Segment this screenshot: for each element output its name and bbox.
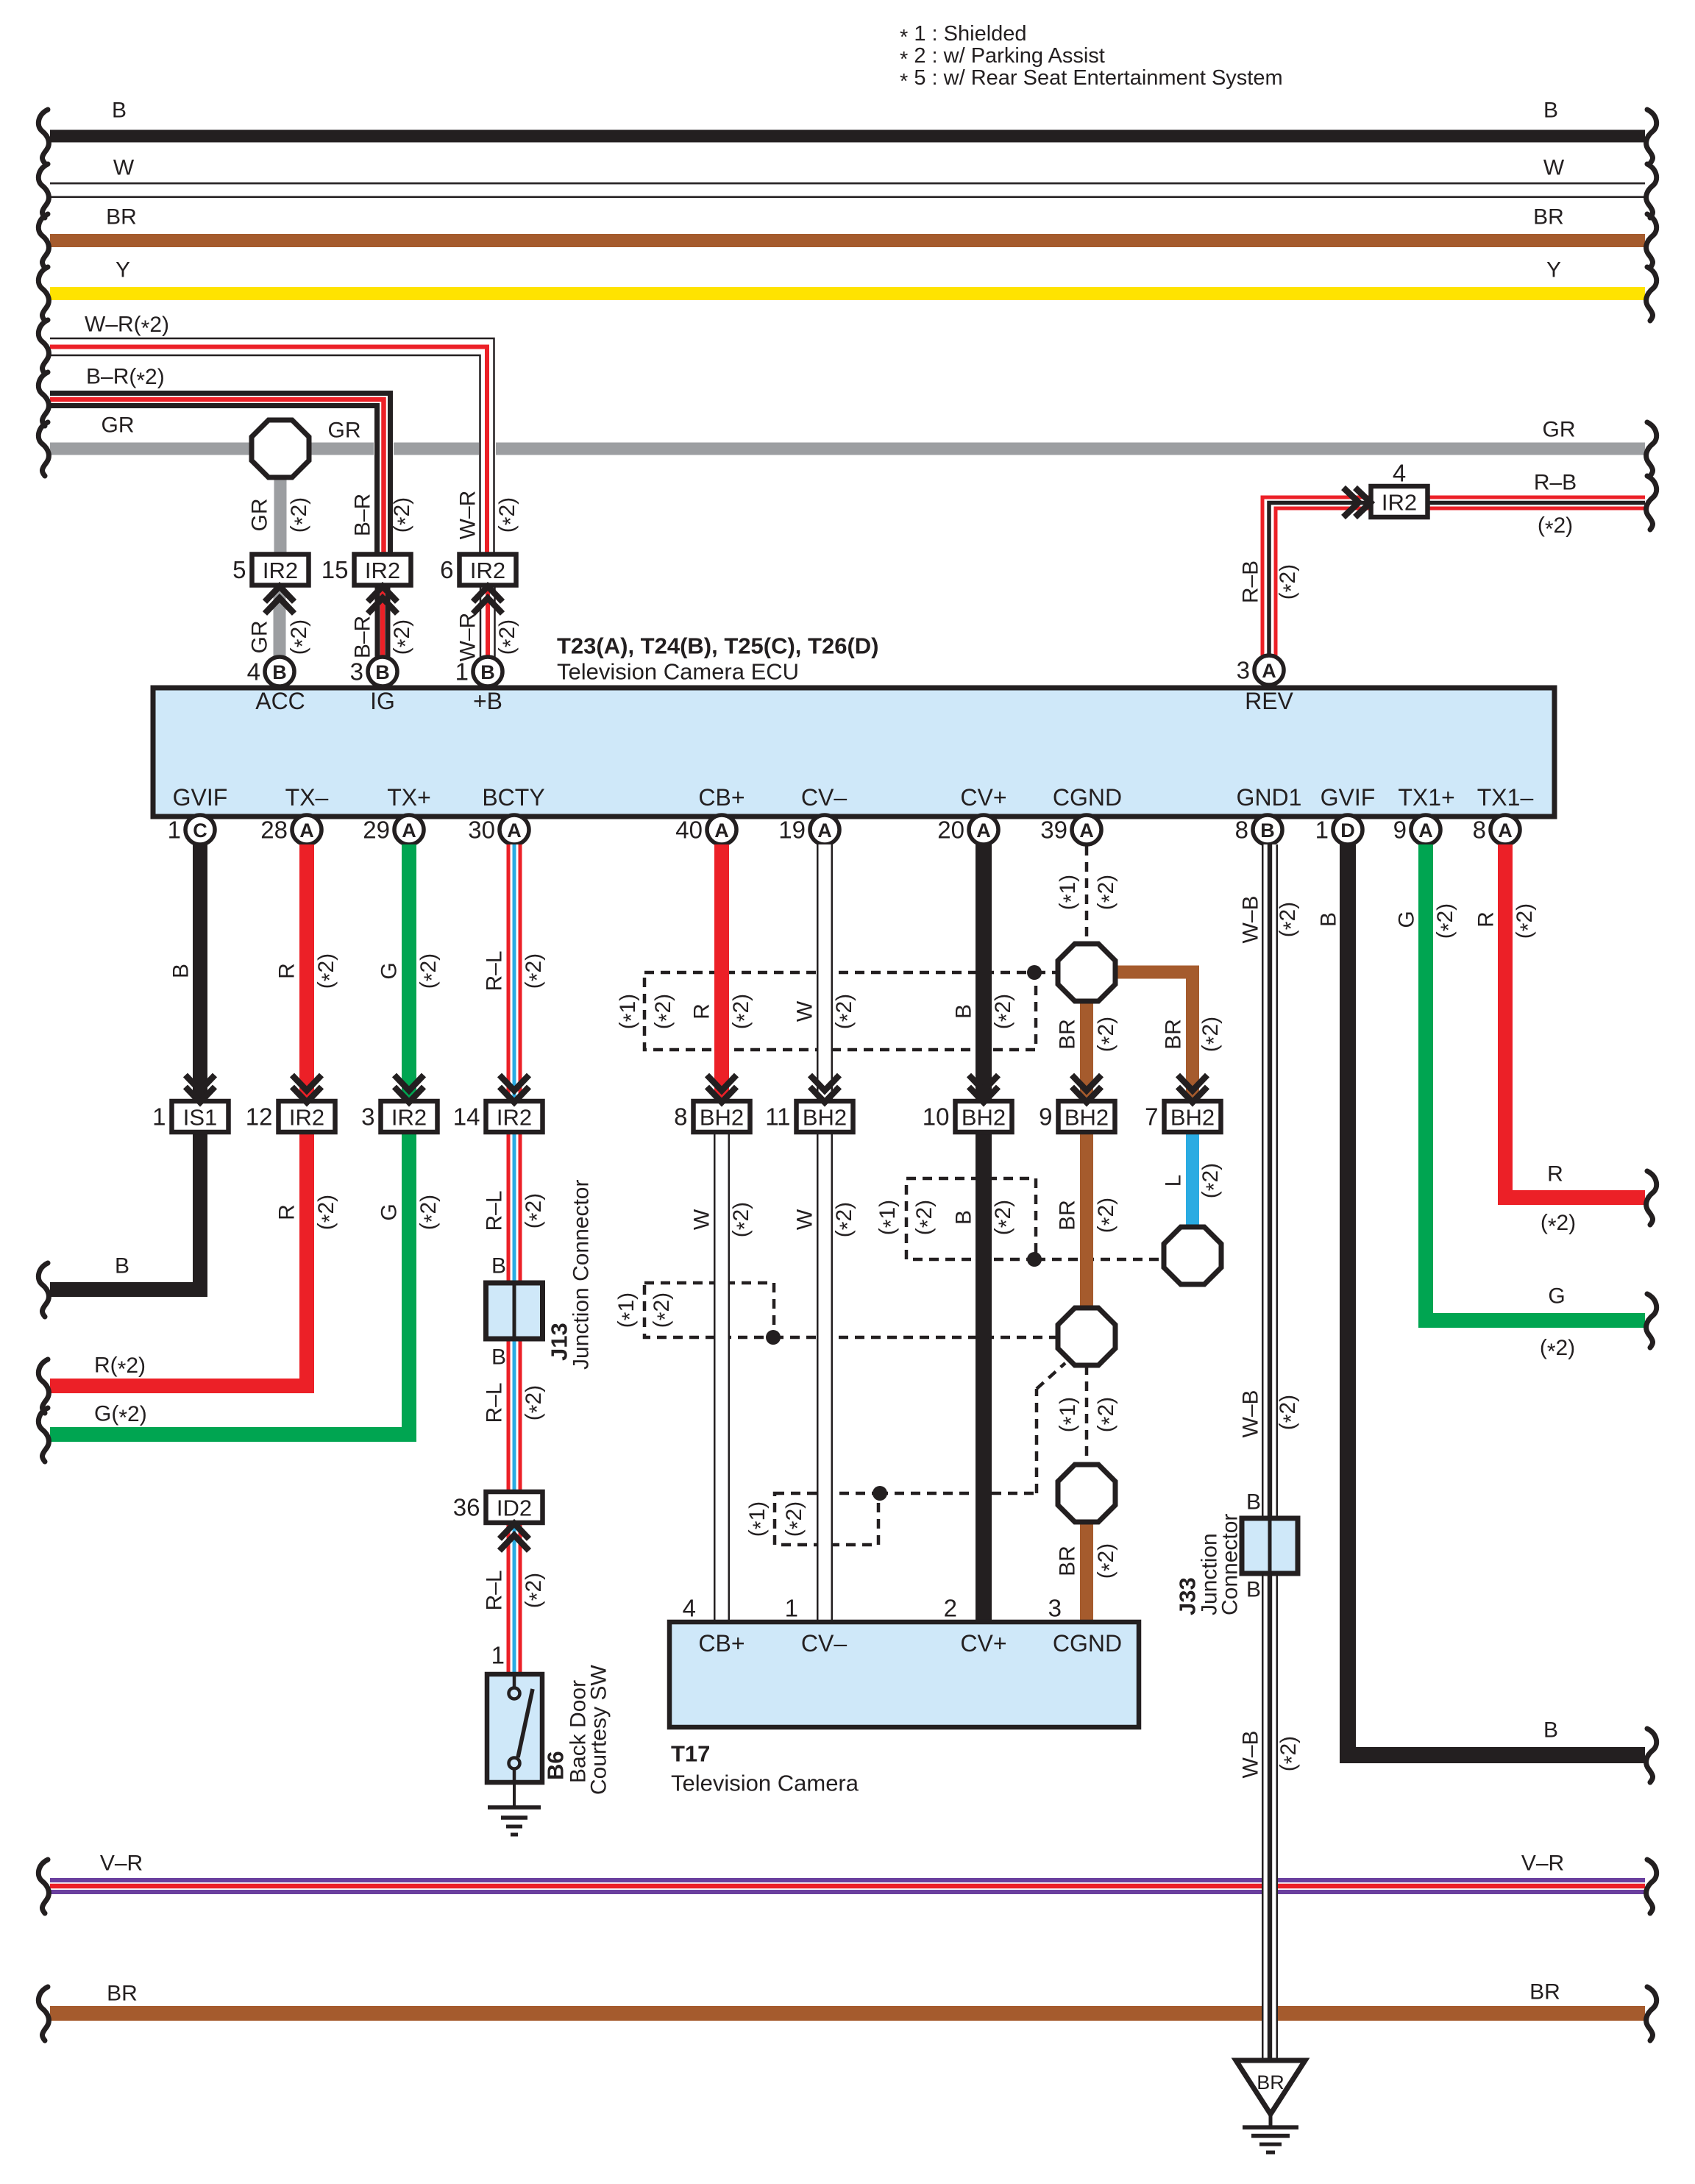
- svg-text:B–R: B–R: [351, 494, 375, 536]
- svg-text:R: R: [1474, 911, 1499, 928]
- svg-text:R–B: R–B: [1239, 561, 1263, 603]
- svg-text:G: G: [377, 1203, 402, 1220]
- svg-text:B: B: [115, 1254, 129, 1278]
- svg-text:R–L: R–L: [483, 1382, 507, 1423]
- svg-text:A: A: [714, 819, 729, 842]
- svg-text:W–R: W–R: [456, 613, 480, 662]
- wire W-R stub to pin 1B: [480, 586, 496, 657]
- svg-text:BH2: BH2: [962, 1105, 1006, 1131]
- ECU T17 Television Camera: [669, 1622, 1139, 1796]
- svg-text:B: B: [169, 964, 193, 978]
- svg-text:4: 4: [683, 1595, 696, 1622]
- svg-text:(*2): (*2): [1513, 903, 1541, 939]
- svg-text:D: D: [1340, 819, 1355, 842]
- svg-text:B: B: [112, 99, 127, 123]
- svg-text:BR: BR: [1056, 1200, 1080, 1231]
- svg-text:(*2): (*2): [1433, 903, 1461, 939]
- svg-text:W–R: W–R: [456, 491, 480, 540]
- label shield marks C-D: [1056, 1397, 1122, 1432]
- svg-text:BR: BR: [1056, 1545, 1080, 1576]
- wire R-B: [1239, 471, 1657, 656]
- svg-text:(*2): (*2): [416, 1195, 444, 1230]
- wire B-R stub to pin 3B: [377, 586, 388, 657]
- connector BH2 pin 9: [1039, 1075, 1115, 1133]
- svg-text:(*2): (*2): [1276, 564, 1304, 600]
- svg-text:2: 2: [944, 1595, 957, 1622]
- svg-text:B: B: [480, 661, 495, 683]
- label W-R above IR2-6: [456, 491, 523, 540]
- svg-text:GVIF: GVIF: [173, 784, 228, 811]
- wire BR bus: [38, 205, 1656, 268]
- svg-text:(*2): (*2): [991, 1200, 1019, 1235]
- wire W-R: [38, 313, 496, 555]
- svg-text:6: 6: [440, 556, 453, 583]
- svg-text:(*2): (*2): [729, 1202, 757, 1237]
- wire BR bottom bus: [38, 1980, 1656, 2041]
- svg-text:29: 29: [363, 817, 390, 844]
- connector IR2 pin 6: [440, 555, 516, 614]
- svg-text:W–B: W–B: [1239, 1730, 1263, 1778]
- svg-text:B: B: [491, 1254, 506, 1278]
- wire R from TX- pin 28A: [38, 844, 341, 1413]
- svg-text:IR2: IR2: [289, 1105, 324, 1131]
- svg-text:9: 9: [1393, 817, 1407, 844]
- svg-text:T17: T17: [671, 1741, 710, 1767]
- svg-text:BR: BR: [106, 205, 137, 230]
- svg-text:W: W: [113, 156, 135, 180]
- svg-text:(*2): (*2): [1538, 513, 1573, 541]
- junction dot W shield: [766, 1330, 781, 1345]
- svg-text:7: 7: [1145, 1103, 1158, 1131]
- label shield marks W box: [614, 1292, 678, 1328]
- svg-text:(*2): (*2): [522, 953, 550, 989]
- wire B bus: [38, 99, 1656, 164]
- svg-text:A: A: [507, 819, 522, 842]
- svg-text:(*2): (*2): [1094, 1397, 1122, 1432]
- svg-text:A: A: [1418, 819, 1433, 842]
- junction dot CV+ shield: [1027, 1252, 1042, 1267]
- pin 30 A BCTY: [468, 815, 529, 844]
- svg-text:(*2): (*2): [1094, 1198, 1122, 1233]
- svg-text:1: 1: [152, 1103, 166, 1131]
- connector IR2 pin 12: [246, 1075, 335, 1133]
- svg-text:IR2: IR2: [263, 558, 298, 583]
- svg-text:L: L: [1162, 1175, 1186, 1187]
- svg-text:39: 39: [1040, 817, 1067, 844]
- junction dot upper shield: [1027, 965, 1042, 980]
- svg-text:J13: J13: [547, 1323, 572, 1361]
- pin 8 B GND1: [1235, 815, 1282, 844]
- svg-text:20: 20: [937, 817, 964, 844]
- svg-text:IR2: IR2: [1382, 490, 1417, 516]
- svg-text:GR: GR: [248, 499, 272, 532]
- wire W below BH2-11: [785, 1132, 860, 1622]
- svg-text:REV: REV: [1245, 688, 1293, 714]
- svg-text:BCTY: BCTY: [482, 784, 544, 811]
- svg-text:CV–: CV–: [801, 784, 847, 811]
- wire W from CV- pin 19A: [793, 844, 860, 1102]
- svg-text:(*2): (*2): [522, 1573, 550, 1608]
- wire R from TX1- pin 8A: [1474, 844, 1657, 1239]
- wire G from TX1+ pin 9A: [1395, 844, 1657, 1364]
- svg-text:(*2): (*2): [390, 619, 418, 655]
- svg-text:12: 12: [246, 1103, 273, 1131]
- svg-text:Connector: Connector: [1218, 1514, 1243, 1615]
- connector IR2 pin 3: [361, 1075, 437, 1133]
- svg-text:B: B: [491, 1345, 506, 1370]
- svg-text:C: C: [193, 819, 207, 842]
- shield dashed box around CV+: [906, 1178, 1165, 1259]
- shield dashed box upper: [644, 972, 1058, 1050]
- label W-R below IR2-6: [456, 613, 523, 662]
- pin 20 A CV+: [937, 815, 998, 844]
- svg-text:(*1): (*1): [1056, 875, 1084, 910]
- svg-text:R–L: R–L: [483, 1190, 507, 1231]
- svg-text:TX–: TX–: [285, 784, 329, 811]
- svg-text:(*2): (*2): [416, 953, 444, 989]
- svg-text:36: 36: [453, 1494, 480, 1521]
- svg-text:B–R(*2): B–R(*2): [86, 365, 165, 393]
- connector IR2 pin 15: [321, 555, 411, 614]
- shield octagon A: [1058, 944, 1115, 1001]
- connector ID2 pin 36: [453, 1492, 543, 1551]
- svg-text:A: A: [402, 819, 416, 842]
- pin 9 A TX1+: [1393, 815, 1440, 844]
- svg-text:A: A: [817, 819, 832, 842]
- svg-text:R–L: R–L: [483, 950, 507, 991]
- svg-text:(*2): (*2): [1198, 1017, 1226, 1052]
- switch B6 Back Door Courtesy SW: [487, 1665, 611, 1795]
- svg-text:(*2): (*2): [1094, 875, 1122, 910]
- svg-text:GR: GR: [328, 419, 361, 443]
- svg-text:A: A: [976, 819, 991, 842]
- svg-text:B: B: [1317, 912, 1341, 927]
- wire BR octagon D to T17: [1048, 1521, 1122, 1622]
- ground BR triangle: [1236, 2060, 1305, 2152]
- svg-text:BR: BR: [1257, 2071, 1284, 2094]
- wire L below BH2-7 to octagon B: [1162, 1132, 1226, 1228]
- svg-text:G: G: [377, 962, 402, 979]
- pin 3 B IG: [350, 657, 397, 686]
- shield octagon B: [1164, 1227, 1221, 1284]
- wire B from GVIF pin 1C: [38, 844, 207, 1317]
- label shield marks upper box: [616, 994, 679, 1029]
- svg-text:(*2): (*2): [390, 497, 418, 533]
- svg-text:(*2): (*2): [782, 1501, 810, 1537]
- wire B from CV+ pin 20A: [952, 844, 1019, 1102]
- svg-text:(*2): (*2): [832, 1202, 860, 1237]
- junction connector J33: [1175, 1514, 1298, 1615]
- wire G from TX+ pin 29A: [38, 844, 444, 1462]
- svg-text:(*1): (*1): [1056, 1397, 1084, 1432]
- svg-text:(*2): (*2): [522, 1193, 550, 1228]
- svg-text:G: G: [1548, 1284, 1565, 1309]
- svg-text:CB+: CB+: [698, 1630, 745, 1657]
- svg-text:BR: BR: [1056, 1019, 1080, 1050]
- svg-text:R: R: [1547, 1162, 1563, 1187]
- svg-text:(*1): (*1): [745, 1501, 773, 1537]
- svg-text:(*2): (*2): [1094, 1543, 1122, 1579]
- svg-text:(*2): (*2): [314, 1195, 342, 1230]
- svg-text:TX1+: TX1+: [1398, 784, 1454, 811]
- connector IR2 pin 14: [453, 1075, 543, 1133]
- svg-text:B: B: [272, 661, 287, 683]
- svg-text:BH2: BH2: [1065, 1105, 1109, 1131]
- svg-text:(*2): (*2): [832, 994, 860, 1029]
- svg-text:1: 1: [1315, 817, 1329, 844]
- svg-text:11: 11: [765, 1103, 790, 1131]
- svg-text:Y: Y: [1546, 258, 1561, 282]
- pin 1 C GVIF: [168, 815, 215, 844]
- svg-text:B: B: [1260, 819, 1275, 842]
- svg-text:A: A: [1498, 819, 1513, 842]
- svg-text:Courtesy SW: Courtesy SW: [587, 1665, 611, 1795]
- shield octagon D: [1058, 1465, 1115, 1522]
- connector IR2 pin 5: [232, 555, 308, 614]
- svg-text:IG: IG: [370, 688, 395, 714]
- svg-text:* 5 : w/ Rear Seat Entertainme: * 5 : w/ Rear Seat Entertainment System: [900, 66, 1283, 93]
- svg-text:(*2): (*2): [314, 953, 342, 989]
- svg-text:30: 30: [468, 817, 495, 844]
- svg-text:W–B: W–B: [1239, 895, 1263, 943]
- svg-text:(*1): (*1): [875, 1200, 903, 1235]
- svg-text:R–L: R–L: [483, 1570, 507, 1610]
- connector BH2 pin 11: [765, 1075, 853, 1133]
- svg-text:V–R: V–R: [100, 1852, 143, 1876]
- svg-text:(*2): (*2): [495, 497, 523, 533]
- svg-text:CGND: CGND: [1053, 1630, 1122, 1657]
- svg-text:(*2): (*2): [912, 1200, 940, 1235]
- svg-text:TX1–: TX1–: [1477, 784, 1534, 811]
- svg-text:BR: BR: [1529, 1980, 1560, 2005]
- svg-text:W–B: W–B: [1239, 1390, 1263, 1437]
- svg-text:BH2: BH2: [700, 1105, 744, 1131]
- wire B from GVIF pin 1D: [1317, 844, 1657, 1782]
- svg-text:B: B: [1543, 1718, 1558, 1743]
- pin 3 A REV: [1237, 655, 1284, 685]
- svg-text:V–R: V–R: [1521, 1852, 1564, 1876]
- pin 39 A CGND: [1040, 815, 1101, 844]
- wire W-B from GND1 pin 8B: [1239, 844, 1304, 2060]
- svg-text:W–R(*2): W–R(*2): [85, 313, 169, 341]
- connector BH2 pin 7: [1145, 1075, 1220, 1133]
- svg-text:GR: GR: [1543, 418, 1576, 442]
- svg-text:CGND: CGND: [1053, 784, 1122, 811]
- wire R from CB+ pin 40A: [690, 844, 757, 1102]
- pin 29 A TX+: [363, 815, 424, 844]
- svg-text:3: 3: [350, 658, 363, 686]
- label shield marks CV+ box: [875, 1200, 940, 1235]
- label shield marks small box: [745, 1501, 810, 1537]
- wire GR bus: [38, 413, 1656, 477]
- svg-text:A: A: [1079, 819, 1094, 842]
- wire B-R: [38, 365, 394, 555]
- svg-text:J33: J33: [1175, 1577, 1201, 1615]
- svg-text:8: 8: [674, 1103, 687, 1131]
- svg-text:(*2): (*2): [729, 994, 757, 1029]
- ground below B6: [488, 1782, 541, 1835]
- svg-text:(*2): (*2): [1276, 1395, 1304, 1430]
- svg-text:W: W: [793, 1000, 817, 1022]
- shield dashed line CGND pin to octagon: [1085, 846, 1089, 944]
- svg-text:G(*2): G(*2): [94, 1402, 147, 1430]
- shield dashed box around W (CB+): [644, 1283, 1058, 1337]
- svg-text:Television Camera ECU: Television Camera ECU: [557, 659, 799, 685]
- svg-text:(*2): (*2): [651, 994, 679, 1029]
- svg-text:9: 9: [1039, 1103, 1052, 1131]
- connector IS1 pin 1: [152, 1075, 228, 1133]
- svg-text:(*2): (*2): [1198, 1163, 1226, 1198]
- svg-text:R: R: [275, 1204, 299, 1220]
- label B-R above IR2-15: [351, 494, 418, 536]
- svg-text:T23(A), T24(B), T25(C), T26(D): T23(A), T24(B), T25(C), T26(D): [557, 633, 878, 659]
- pin 28 A TX-: [260, 815, 321, 844]
- pin 19 A CV-: [778, 815, 839, 844]
- svg-text:CB+: CB+: [698, 784, 745, 811]
- svg-text:(*1): (*1): [616, 994, 644, 1029]
- label shield marks CGND: [1056, 875, 1122, 910]
- svg-text:Television Camera: Television Camera: [671, 1771, 859, 1796]
- svg-text:(*1): (*1): [614, 1292, 642, 1328]
- svg-text:(*2): (*2): [522, 1385, 550, 1420]
- svg-text:CV+: CV+: [960, 1630, 1006, 1657]
- svg-text:(*2): (*2): [1541, 1211, 1576, 1239]
- svg-text:+B: +B: [473, 688, 502, 714]
- junction connector J13: [486, 1180, 594, 1370]
- svg-text:1: 1: [491, 1642, 505, 1669]
- svg-text:14: 14: [453, 1103, 480, 1131]
- svg-text:R–B: R–B: [1534, 471, 1577, 495]
- svg-text:B: B: [1543, 99, 1558, 123]
- svg-text:GR: GR: [248, 621, 272, 654]
- svg-text:8: 8: [1473, 817, 1486, 844]
- shield octagon C: [1058, 1308, 1115, 1365]
- svg-text:(*2): (*2): [1094, 1017, 1122, 1052]
- svg-text:15: 15: [321, 556, 349, 583]
- shield dashed line octagon C to D: [1085, 1365, 1089, 1465]
- svg-text:TX+: TX+: [387, 784, 431, 811]
- svg-text:(*2): (*2): [495, 619, 523, 655]
- svg-text:3: 3: [1048, 1595, 1062, 1622]
- svg-text:(*2): (*2): [1276, 1736, 1304, 1771]
- svg-text:BR: BR: [107, 1982, 138, 2006]
- svg-text:IR2: IR2: [470, 558, 505, 583]
- connector BH2 pin 8: [674, 1075, 750, 1133]
- junction dot small shield: [873, 1486, 887, 1501]
- wire W bus: [38, 156, 1656, 218]
- svg-text:R: R: [275, 963, 299, 979]
- svg-text:Y: Y: [116, 258, 130, 282]
- svg-text:ACC: ACC: [255, 688, 305, 714]
- svg-text:BR: BR: [1533, 205, 1564, 230]
- svg-text:3: 3: [1237, 657, 1250, 684]
- wire B below BH2-10: [944, 1132, 1019, 1622]
- svg-text:R(*2): R(*2): [94, 1354, 146, 1381]
- svg-text:B6: B6: [543, 1751, 569, 1780]
- wire W below BH2-8: [683, 1132, 757, 1622]
- note legend: [900, 22, 1283, 93]
- svg-text:40: 40: [675, 817, 703, 844]
- svg-text:IS1: IS1: [183, 1105, 218, 1131]
- wire BR octagon A to BH2-7: [1111, 972, 1226, 1103]
- svg-text:B–R: B–R: [351, 616, 375, 658]
- svg-text:1: 1: [455, 658, 469, 686]
- svg-text:W: W: [1543, 156, 1565, 180]
- svg-text:ID2: ID2: [497, 1495, 532, 1521]
- svg-text:IR2: IR2: [365, 558, 400, 583]
- connector BH2 pin 10: [923, 1075, 1012, 1133]
- svg-text:Junction Connector: Junction Connector: [569, 1180, 594, 1370]
- shield dashed box around W (CV-): [775, 1363, 1065, 1545]
- wire BR octagon A to BH2-9: [1056, 999, 1122, 1102]
- svg-text:W: W: [690, 1209, 714, 1230]
- svg-text:GND1: GND1: [1237, 784, 1302, 811]
- svg-text:GVIF: GVIF: [1321, 784, 1376, 811]
- wire BR below BH2-9 to octagon C: [1056, 1132, 1122, 1309]
- svg-text:A: A: [299, 819, 314, 842]
- pin 1 B +B: [455, 657, 502, 686]
- svg-text:GR: GR: [102, 413, 135, 438]
- svg-text:28: 28: [260, 817, 288, 844]
- wire R-L from BCTY pin 30A: [483, 844, 550, 1674]
- wire GR stub to pin 4B: [274, 586, 286, 657]
- label B-R below IR2-15: [351, 616, 418, 658]
- svg-text:B: B: [375, 661, 390, 683]
- svg-text:4: 4: [1393, 460, 1406, 487]
- svg-text:R: R: [690, 1003, 714, 1020]
- svg-text:(*2): (*2): [1276, 902, 1304, 937]
- svg-text:4: 4: [247, 658, 260, 686]
- svg-text:8: 8: [1235, 817, 1248, 844]
- svg-text:1: 1: [785, 1595, 798, 1622]
- svg-text:A: A: [1262, 660, 1276, 682]
- svg-text:5: 5: [232, 556, 246, 583]
- pin 1 D GVIF2: [1315, 815, 1362, 844]
- svg-text:1: 1: [168, 817, 181, 844]
- svg-text:CV–: CV–: [801, 1630, 847, 1657]
- svg-text:IR2: IR2: [391, 1105, 427, 1131]
- svg-text:BH2: BH2: [803, 1105, 847, 1131]
- pin 8 A TX1-: [1473, 815, 1520, 844]
- wire V-R bus: [38, 1852, 1656, 1914]
- svg-text:B: B: [952, 1004, 976, 1019]
- svg-text:19: 19: [778, 817, 806, 844]
- svg-text:B: B: [952, 1210, 976, 1225]
- wire Y bus: [38, 258, 1656, 321]
- shield octagon GR: [252, 420, 309, 554]
- svg-text:BR: BR: [1162, 1019, 1186, 1050]
- svg-text:3: 3: [361, 1103, 374, 1131]
- svg-text:B: B: [1246, 1578, 1261, 1602]
- connector IR2 pin 4: [1343, 460, 1428, 518]
- svg-text:B: B: [1246, 1490, 1261, 1515]
- svg-text:W: W: [793, 1209, 817, 1230]
- label GR below IR2-5: [248, 619, 315, 655]
- svg-text:CV+: CV+: [960, 784, 1006, 811]
- svg-text:(*2): (*2): [1540, 1336, 1575, 1364]
- ECU T23/T24/T25/T26 Television Camera ECU: [153, 633, 1554, 817]
- svg-text:(*2): (*2): [991, 994, 1019, 1029]
- svg-text:10: 10: [923, 1103, 950, 1131]
- svg-text:IR2: IR2: [497, 1105, 532, 1131]
- svg-text:(*2): (*2): [650, 1292, 678, 1328]
- label GR above IR2-5: [248, 497, 315, 533]
- pin 4 B ACC: [247, 657, 294, 686]
- svg-text:G: G: [1395, 911, 1419, 928]
- svg-text:BH2: BH2: [1170, 1105, 1215, 1131]
- svg-text:(*2): (*2): [287, 497, 315, 533]
- svg-text:(*2): (*2): [287, 619, 315, 655]
